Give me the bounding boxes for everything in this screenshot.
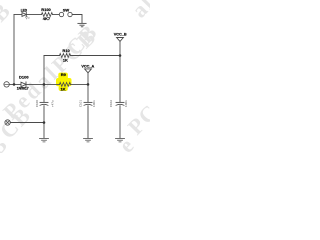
svg-text:D100: D100	[19, 75, 29, 80]
svg-text:100n: 100n	[92, 100, 96, 107]
svg-text:R9: R9	[61, 72, 67, 77]
svg-text:+47u: +47u	[51, 100, 55, 107]
svg-text:100n: 100n	[124, 100, 128, 107]
svg-text:1N5817: 1N5817	[17, 86, 29, 90]
svg-text:C102: C102	[109, 100, 113, 108]
svg-text:VCC_A: VCC_A	[81, 64, 94, 68]
svg-text:C100: C100	[35, 100, 39, 108]
svg-text:VCC_B: VCC_B	[114, 33, 127, 37]
svg-text:1K: 1K	[60, 87, 65, 92]
svg-text:R100: R100	[41, 7, 51, 12]
svg-text:SW: SW	[63, 7, 70, 12]
svg-text:4K7: 4K7	[43, 16, 51, 21]
svg-text:1K: 1K	[63, 58, 68, 63]
svg-text:C101: C101	[79, 100, 83, 108]
svg-text:R10: R10	[62, 48, 70, 53]
svg-text:LED: LED	[21, 8, 28, 12]
